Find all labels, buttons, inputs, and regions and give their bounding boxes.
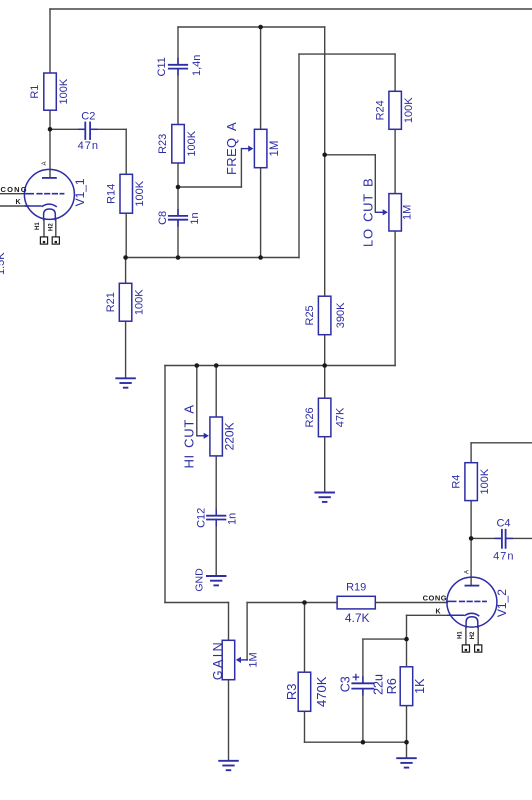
wire GAIN wiper riser bbox=[247, 603, 337, 660]
wire y27 rail bbox=[178, 26, 325, 28]
svg-text:LO CUT B: LO CUT B bbox=[361, 178, 376, 247]
potentiometer HI CUT A bbox=[197, 417, 222, 456]
svg-text:HI CUT A: HI CUT A bbox=[182, 404, 197, 468]
ground (GAIN) bbox=[219, 761, 238, 770]
junction R1/C2/anode bbox=[48, 127, 53, 132]
svg-text:R19: R19 bbox=[346, 582, 366, 594]
svg-text:C8: C8 bbox=[157, 211, 169, 225]
V1_2 heater filament bbox=[466, 617, 478, 628]
svg-text:H1: H1 bbox=[458, 631, 464, 639]
svg-text:100K: 100K bbox=[58, 78, 70, 104]
wire C4 right out bbox=[506, 537, 532, 539]
V1_1 grid (dashed) bbox=[24, 193, 33, 195]
wire R1 top bbox=[49, 9, 51, 73]
V1_2 heater port H1 bbox=[462, 645, 469, 652]
wire node y187 to FREQ A wiper bbox=[178, 149, 241, 187]
V1_1 heater port H2 bbox=[52, 237, 59, 244]
junction C3 bottom node bbox=[361, 740, 366, 745]
wire R19 to V1_2 grid bbox=[375, 602, 447, 604]
wire R23 bottom to node bbox=[177, 163, 179, 187]
svg-text:R25: R25 bbox=[304, 305, 316, 325]
svg-text:22u: 22u bbox=[371, 674, 385, 695]
junction R3 top node bbox=[302, 600, 307, 605]
resistor R25 bbox=[318, 296, 331, 335]
svg-text:470K: 470K bbox=[314, 676, 329, 707]
svg-text:H2: H2 bbox=[49, 223, 55, 231]
wire mid row y365 bbox=[165, 365, 395, 367]
resistor R4 bbox=[465, 463, 478, 501]
wire node row y257 bbox=[126, 257, 299, 259]
junction R4/C4/anode node bbox=[469, 536, 474, 541]
svg-text:C2: C2 bbox=[81, 111, 95, 123]
wire V1_1 anode bbox=[49, 129, 51, 177]
junction FREQ A bottom node bbox=[258, 255, 263, 260]
wire GAIN bottom to ground bbox=[228, 680, 230, 761]
V1_1 heater filament bbox=[44, 209, 56, 220]
svg-text:FREQ A: FREQ A bbox=[224, 122, 239, 175]
triode V1_2 envelope bbox=[447, 577, 497, 627]
wire to bottom-right ground bbox=[406, 742, 408, 758]
junction FREQ A top node bbox=[258, 25, 263, 30]
capacitor C4 bbox=[501, 530, 503, 548]
svg-text:R21: R21 bbox=[105, 292, 117, 312]
svg-text:R4: R4 bbox=[450, 475, 462, 489]
svg-text:R1: R1 bbox=[29, 85, 41, 99]
svg-text:1n: 1n bbox=[189, 212, 201, 224]
V1_1 anode plate bbox=[43, 177, 56, 179]
svg-text:1M: 1M bbox=[248, 652, 260, 667]
wire left column down bbox=[165, 366, 229, 641]
V1_1 heater port H1 bbox=[40, 237, 47, 244]
svg-text:K: K bbox=[16, 199, 21, 206]
junction LO CUT B wiper node bbox=[322, 153, 327, 158]
C3 polarity + bbox=[353, 676, 358, 678]
wire LO CUT B bottom down bbox=[394, 231, 396, 366]
svg-text:R24: R24 bbox=[374, 100, 386, 120]
resistor R24 bbox=[389, 91, 402, 129]
wire R1 bottom to node bbox=[49, 110, 51, 129]
wire V1_1 cathode in bbox=[0, 205, 28, 207]
resistor R3 bbox=[298, 672, 311, 711]
wire R21 bottom to ground bbox=[125, 321, 127, 378]
resistor R19 bbox=[337, 596, 375, 609]
svg-text:R3: R3 bbox=[284, 683, 299, 700]
svg-text:C11: C11 bbox=[156, 57, 168, 76]
wire V1_1 heater H1 bbox=[43, 219, 45, 237]
ground (R26) bbox=[315, 493, 334, 502]
wire R14 bottom to node bbox=[125, 213, 127, 257]
wire HI CUT A top bbox=[215, 366, 217, 418]
resistor R21 bbox=[119, 283, 132, 321]
wire C8 bottom to node bbox=[177, 220, 179, 258]
wire V1_2 cathode bbox=[407, 614, 451, 616]
svg-text:CONG: CONG bbox=[1, 185, 28, 194]
wire R4 bottom to node bbox=[470, 501, 472, 539]
resistor R14 bbox=[120, 174, 133, 213]
svg-text:1,4n: 1,4n bbox=[191, 55, 203, 76]
wire V1_2 anode bbox=[470, 538, 472, 586]
ground GND net (C12) bbox=[207, 576, 226, 585]
svg-text:100K: 100K bbox=[186, 130, 198, 156]
svg-text:V1_2: V1_2 bbox=[495, 589, 509, 617]
wire V1_2 heater H2 bbox=[477, 627, 479, 645]
wire C8 top bbox=[177, 187, 179, 216]
svg-text:H1: H1 bbox=[35, 222, 41, 230]
potentiometer LO CUT B bbox=[376, 194, 401, 231]
wire R25 bottom to node bbox=[324, 335, 326, 366]
V1_2 grid (dashed) bbox=[447, 600, 456, 602]
wire C12 to GND bbox=[215, 520, 217, 577]
wire R24 bottom to LO CUT B top bbox=[394, 129, 396, 193]
svg-text:R6: R6 bbox=[385, 678, 399, 694]
svg-text:47n: 47n bbox=[493, 551, 514, 563]
wire R3 bottom bbox=[304, 711, 306, 742]
wire C3 upper bbox=[362, 639, 364, 683]
svg-text:390K: 390K bbox=[335, 302, 347, 328]
wire C3 lower bbox=[362, 689, 364, 742]
ground (bottom right) bbox=[397, 758, 416, 767]
wire bottom row y742 bbox=[305, 741, 407, 743]
wire LO CUT B wiper link bbox=[325, 155, 376, 213]
svg-text:C3: C3 bbox=[338, 676, 352, 692]
capacitor C2 bbox=[84, 123, 86, 140]
V1_1 cathode bbox=[25, 205, 41, 207]
svg-text:220K: 220K bbox=[222, 422, 236, 450]
junction C3/cathode node bbox=[404, 637, 409, 642]
wire R26 top bbox=[324, 366, 326, 399]
wire R6 bottom bbox=[406, 706, 408, 743]
wire R21 top bbox=[125, 258, 127, 284]
wire node to C4 bbox=[471, 537, 501, 539]
svg-text:100K: 100K bbox=[479, 468, 491, 494]
junction R14/R21 node bbox=[123, 255, 128, 260]
wire FREQ A top bbox=[260, 27, 262, 129]
wire up right column bbox=[299, 54, 395, 257]
svg-text:1n: 1n bbox=[226, 513, 238, 525]
wire x324 column bbox=[324, 27, 326, 296]
svg-text:1M: 1M bbox=[269, 141, 281, 157]
V1_2 anode plate bbox=[465, 585, 478, 587]
wire FREQ A bottom bbox=[260, 168, 262, 258]
wire V1_1 grid in bbox=[0, 193, 25, 195]
wire R26 bottom to ground bbox=[324, 437, 326, 493]
wire V1_2 heater H1 bbox=[465, 627, 467, 645]
svg-text:A: A bbox=[464, 570, 470, 574]
svg-text:R26: R26 bbox=[304, 407, 316, 427]
svg-text:1.5K: 1.5K bbox=[0, 252, 7, 275]
resistor R1 bbox=[44, 73, 57, 110]
junction HI CUT A top node bbox=[214, 363, 219, 368]
V1_2 heater port H2 bbox=[475, 645, 482, 652]
wire R4 top rail bbox=[471, 442, 532, 444]
capacitor C3 bbox=[352, 677, 373, 695]
capacitor C12 bbox=[207, 510, 225, 526]
junction R6 bottom node bbox=[404, 740, 409, 745]
junction R25/R26 node bbox=[322, 363, 327, 368]
svg-text:1M: 1M bbox=[402, 205, 414, 220]
svg-text:C4: C4 bbox=[496, 518, 510, 530]
potentiometer FREQ A bbox=[242, 129, 267, 167]
wire HI CUT A bottom to C12 bbox=[215, 456, 217, 516]
wire V1_1 heater H2 bbox=[55, 219, 57, 237]
wire R4 top bbox=[470, 443, 472, 463]
svg-text:CONG: CONG bbox=[423, 594, 448, 603]
svg-text:100K: 100K bbox=[133, 289, 145, 315]
V1_2 cathode bbox=[448, 614, 464, 616]
capacitor C11 bbox=[169, 59, 187, 75]
svg-text:R23: R23 bbox=[157, 134, 169, 154]
wire R3 top bbox=[304, 603, 306, 673]
ground (R21) bbox=[116, 378, 135, 387]
resistor R6 bbox=[400, 667, 413, 706]
junction HI CUT A wiper node bbox=[195, 363, 200, 368]
potentiometer GAIN bbox=[222, 640, 247, 679]
svg-text:R14: R14 bbox=[106, 184, 118, 204]
wire top rail bbox=[50, 8, 532, 10]
junction R23/C8/wiper node bbox=[176, 185, 181, 190]
capacitor C8 bbox=[169, 210, 187, 226]
wire C2 right plate to R14 branch bbox=[90, 129, 126, 174]
wire cathode drop to R6 bbox=[406, 615, 408, 667]
triode V1_1 envelope bbox=[24, 169, 74, 219]
svg-text:C12: C12 bbox=[196, 508, 208, 528]
wire C11 top bbox=[177, 27, 179, 65]
wire C3 top link bbox=[363, 638, 407, 640]
junction C8 bottom node bbox=[176, 255, 181, 260]
svg-text:47K: 47K bbox=[335, 407, 347, 427]
svg-text:100K: 100K bbox=[403, 97, 415, 123]
svg-text:H2: H2 bbox=[470, 631, 476, 639]
svg-text:GND: GND bbox=[193, 568, 205, 592]
wire C11 to R23 bbox=[177, 69, 179, 125]
svg-text:1K: 1K bbox=[413, 678, 427, 694]
wire node to C2 left plate bbox=[50, 128, 85, 130]
svg-text:A: A bbox=[42, 161, 48, 165]
resistor R26 bbox=[318, 398, 331, 437]
resistor R23 bbox=[172, 125, 185, 164]
svg-text:K: K bbox=[436, 608, 441, 615]
svg-text:100K: 100K bbox=[134, 180, 146, 206]
svg-text:47n: 47n bbox=[78, 140, 99, 152]
svg-text:V1_1: V1_1 bbox=[73, 178, 87, 206]
wire HI CUT A wiper drop bbox=[196, 366, 198, 436]
svg-text:GAIN: GAIN bbox=[211, 640, 225, 680]
svg-text:4.7K: 4.7K bbox=[345, 611, 370, 625]
